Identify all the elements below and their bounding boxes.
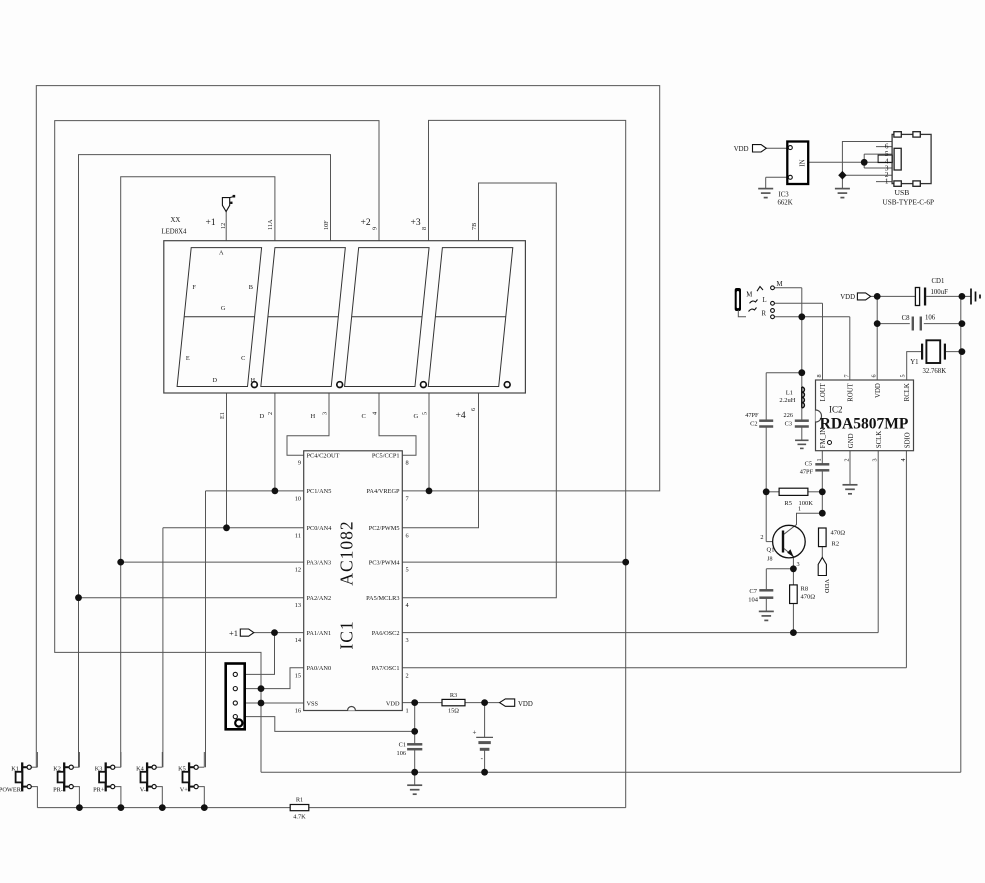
svg-text:4: 4	[371, 412, 378, 415]
svg-text:SCLK: SCLK	[876, 431, 883, 448]
svg-text:226: 226	[784, 412, 793, 419]
svg-text:H: H	[251, 377, 256, 384]
svg-text:LED8X4: LED8X4	[162, 229, 188, 236]
svg-text:+4: +4	[456, 411, 466, 421]
svg-text:PA0/AN0: PA0/AN0	[307, 665, 332, 672]
svg-text:2: 2	[843, 458, 850, 461]
svg-text:2: 2	[267, 412, 274, 415]
svg-text:13: 13	[295, 602, 301, 609]
svg-text:PA2/AN2: PA2/AN2	[307, 595, 332, 602]
svg-text:PC4/C2OUT: PC4/C2OUT	[307, 453, 340, 460]
svg-text:4.7K: 4.7K	[293, 814, 306, 821]
svg-text:VDD: VDD	[823, 579, 830, 593]
svg-text:D: D	[213, 377, 218, 384]
svg-text:PR-: PR-	[53, 787, 63, 794]
svg-text:PA1/AN1: PA1/AN1	[307, 630, 332, 637]
svg-text:PA4/VREGP: PA4/VREGP	[366, 488, 400, 495]
svg-text:3: 3	[406, 637, 409, 644]
svg-text:106: 106	[397, 750, 406, 757]
svg-text:PA5/MCLR3: PA5/MCLR3	[366, 595, 399, 602]
svg-text:PC2/PWM5: PC2/PWM5	[369, 525, 400, 532]
svg-text:C: C	[362, 413, 366, 420]
svg-text:+1: +1	[206, 218, 216, 228]
svg-text:XX: XX	[171, 217, 181, 224]
svg-text:R3: R3	[450, 692, 457, 699]
svg-text:PR+: PR+	[93, 787, 105, 794]
svg-text:VDD: VDD	[875, 383, 882, 398]
svg-text:SDIO: SDIO	[904, 432, 911, 448]
svg-text:470Ω: 470Ω	[831, 530, 846, 537]
svg-text:PA6/OSC2: PA6/OSC2	[372, 630, 400, 637]
svg-text:10F: 10F	[323, 220, 330, 230]
svg-text:+1: +1	[229, 628, 238, 638]
svg-text:E1: E1	[219, 412, 226, 419]
svg-text:LOUT: LOUT	[820, 382, 827, 401]
svg-text:3: 3	[321, 412, 328, 415]
svg-text:470Ω: 470Ω	[801, 594, 816, 601]
svg-text:K3: K3	[95, 766, 103, 773]
svg-text:VDD: VDD	[386, 700, 400, 707]
svg-text:7B: 7B	[471, 223, 478, 230]
svg-text:AC1082: AC1082	[337, 520, 357, 585]
svg-text:+2: +2	[361, 218, 371, 228]
svg-text:L: L	[763, 297, 767, 304]
svg-text:R8: R8	[801, 586, 809, 593]
svg-text:6: 6	[406, 532, 409, 539]
svg-text:IC3: IC3	[779, 192, 790, 199]
svg-text:PC3/PWM4: PC3/PWM4	[369, 559, 401, 566]
svg-text:2.2uH: 2.2uH	[779, 397, 795, 404]
svg-text:5: 5	[406, 567, 409, 574]
svg-text:H: H	[311, 413, 316, 420]
svg-text:R2: R2	[832, 541, 840, 548]
svg-text:12: 12	[295, 567, 301, 574]
svg-text:+: +	[473, 729, 477, 737]
svg-text:11A: 11A	[267, 219, 274, 230]
svg-text:+3: +3	[411, 218, 421, 228]
svg-text:2: 2	[406, 672, 409, 679]
svg-text:4: 4	[900, 458, 907, 461]
svg-text:USB-TYPE-C-6P: USB-TYPE-C-6P	[883, 199, 935, 207]
svg-text:16: 16	[295, 708, 301, 715]
svg-text:32.768K: 32.768K	[923, 368, 947, 375]
svg-text:M: M	[777, 281, 783, 288]
svg-text:PC1/AN5: PC1/AN5	[307, 488, 332, 495]
svg-text:K4: K4	[136, 766, 145, 773]
svg-text:R1: R1	[296, 797, 303, 804]
svg-text:9: 9	[371, 227, 378, 230]
svg-text:C: C	[241, 355, 245, 362]
svg-text:CD1: CD1	[932, 278, 945, 285]
svg-text:USB: USB	[895, 188, 910, 197]
svg-text:F: F	[192, 284, 196, 291]
svg-text:5: 5	[421, 412, 428, 415]
svg-text:VSS: VSS	[307, 700, 319, 707]
svg-text:5: 5	[899, 374, 906, 377]
svg-text:7: 7	[406, 495, 409, 502]
svg-text:G: G	[414, 413, 419, 420]
svg-text:47PF: 47PF	[800, 469, 814, 476]
svg-text:104: 104	[748, 597, 759, 604]
svg-text:C8: C8	[902, 315, 911, 322]
svg-text:6: 6	[470, 408, 477, 411]
svg-text:PC0/AN4: PC0/AN4	[307, 525, 333, 532]
svg-text:3: 3	[872, 458, 879, 461]
svg-text:14: 14	[295, 637, 302, 644]
svg-text:662K: 662K	[778, 200, 793, 207]
svg-text:2: 2	[760, 534, 763, 541]
svg-text:PA3/AN3: PA3/AN3	[307, 559, 332, 566]
svg-text:C1: C1	[399, 742, 406, 749]
svg-text:9: 9	[298, 460, 301, 467]
svg-text:RCLK: RCLK	[904, 383, 911, 401]
svg-text:7: 7	[843, 374, 850, 377]
svg-text:R: R	[762, 311, 767, 318]
svg-text:47PF: 47PF	[745, 412, 759, 419]
svg-text:POWER: POWER	[0, 787, 22, 794]
svg-text:PA7/OSC1: PA7/OSC1	[372, 665, 400, 672]
svg-text:J8: J8	[767, 557, 772, 563]
svg-text:10: 10	[295, 495, 301, 502]
svg-text:VDD: VDD	[518, 701, 533, 708]
svg-text:K1: K1	[11, 766, 19, 773]
svg-text:VDD: VDD	[734, 146, 749, 153]
svg-text:V-: V-	[140, 787, 146, 794]
svg-text:PC5/CCP1: PC5/CCP1	[372, 453, 400, 460]
svg-text:1: 1	[816, 458, 823, 461]
svg-text:RDA5807MP: RDA5807MP	[820, 416, 909, 433]
svg-text:15Ω: 15Ω	[448, 708, 459, 715]
svg-text:B: B	[249, 284, 253, 291]
svg-text:1: 1	[798, 506, 801, 513]
svg-text:IN: IN	[800, 159, 807, 166]
svg-text:1: 1	[885, 178, 889, 186]
svg-text:6: 6	[871, 374, 878, 377]
svg-text:L1: L1	[786, 390, 793, 397]
svg-text:M: M	[746, 292, 752, 299]
svg-text:12: 12	[220, 223, 227, 229]
svg-text:D: D	[260, 413, 265, 420]
svg-text:VDD: VDD	[840, 294, 855, 301]
svg-text:K5: K5	[178, 766, 186, 773]
svg-text:8: 8	[406, 460, 409, 467]
svg-text:A: A	[219, 250, 224, 257]
svg-text:1: 1	[406, 708, 409, 715]
svg-text:3: 3	[797, 561, 800, 568]
svg-text:11: 11	[295, 532, 301, 539]
svg-text:100uF: 100uF	[931, 289, 949, 296]
svg-text:15: 15	[295, 672, 301, 679]
svg-text:K2: K2	[53, 766, 61, 773]
svg-text:C3: C3	[785, 421, 792, 428]
svg-text:GND: GND	[848, 433, 855, 448]
svg-text:IC2: IC2	[829, 405, 843, 415]
svg-text:106: 106	[925, 315, 936, 322]
svg-text:E: E	[186, 355, 190, 362]
svg-text:Q1: Q1	[767, 547, 775, 554]
svg-text:8: 8	[421, 227, 428, 230]
svg-text:R5: R5	[784, 500, 792, 507]
svg-text:8: 8	[816, 374, 823, 377]
svg-text:IC1: IC1	[337, 620, 357, 649]
svg-text:V+: V+	[180, 787, 189, 794]
svg-text:C7: C7	[749, 588, 757, 595]
svg-text:C2: C2	[750, 421, 757, 428]
svg-text:C5: C5	[805, 461, 812, 468]
svg-text:Y1: Y1	[910, 359, 918, 366]
svg-text:G: G	[221, 305, 226, 312]
svg-text:ROUT: ROUT	[848, 382, 855, 401]
